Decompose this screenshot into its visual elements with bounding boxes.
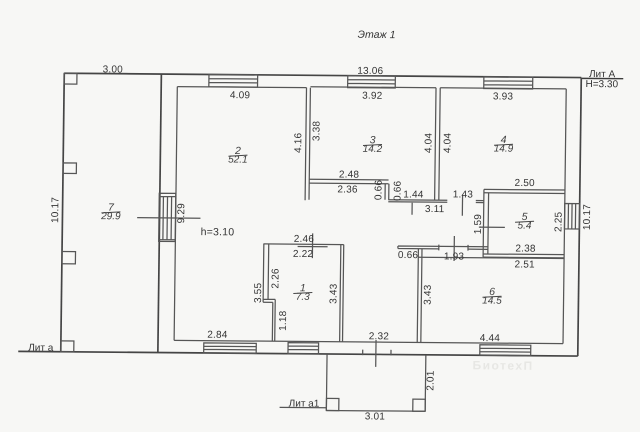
svg-text:3.01: 3.01 bbox=[365, 411, 386, 422]
dim line 9.29 bbox=[137, 217, 200, 220]
wall 2.48 bbox=[309, 179, 388, 183]
window bottom W7 bbox=[288, 343, 319, 354]
porch left wall bbox=[325, 354, 328, 410]
svg-text:2.84: 2.84 bbox=[207, 330, 228, 341]
interior line bottom bbox=[174, 340, 563, 343]
room label 2 bbox=[228, 145, 248, 166]
svg-text:3.55: 3.55 bbox=[253, 282, 264, 303]
porch bottom wall bbox=[326, 409, 425, 412]
window top W3 bbox=[348, 76, 396, 88]
svg-text:2.25: 2.25 bbox=[553, 211, 564, 232]
pilaster P4 bbox=[61, 341, 74, 352]
svg-text:Лит а: Лит а bbox=[28, 343, 54, 354]
pilaster P1 bbox=[64, 73, 77, 84]
room label 3 bbox=[363, 134, 383, 155]
wall rooms3-4 bbox=[435, 88, 441, 200]
porch corner box right bbox=[413, 399, 426, 411]
wall bottom outer bbox=[18, 351, 578, 356]
svg-text:2.50: 2.50 bbox=[515, 178, 536, 189]
underline Lit a1 bbox=[280, 406, 327, 408]
tick room1 top bbox=[311, 233, 313, 258]
svg-text:10.17: 10.17 bbox=[50, 197, 61, 223]
window top W4 bbox=[484, 77, 533, 89]
svg-text:0.66: 0.66 bbox=[392, 180, 403, 201]
pilaster P2 bbox=[63, 163, 76, 174]
svg-text:2.26: 2.26 bbox=[270, 268, 281, 289]
room1 top wall bbox=[263, 244, 343, 247]
wall left outer bbox=[61, 73, 65, 352]
wall corridor vertical bbox=[417, 249, 422, 343]
tick 1.44 bbox=[411, 203, 413, 215]
tick w193a bbox=[438, 245, 440, 251]
svg-text:7.3: 7.3 bbox=[296, 292, 310, 303]
tick w193b bbox=[467, 245, 469, 251]
dim line 1.59 bbox=[479, 226, 505, 228]
wall rooms2-3 bbox=[305, 88, 310, 201]
window divider WD bbox=[159, 193, 176, 241]
svg-text:9.29: 9.29 bbox=[176, 203, 187, 224]
room1 left wall lower bbox=[272, 299, 275, 341]
interior top room4 bbox=[440, 88, 566, 89]
svg-text:0.66: 0.66 bbox=[373, 180, 384, 201]
svg-text:4.04: 4.04 bbox=[442, 133, 453, 154]
svg-text:52.1: 52.1 bbox=[228, 155, 248, 166]
room label 1 bbox=[293, 282, 312, 303]
wall room5 top bbox=[484, 189, 565, 193]
svg-text:4.09: 4.09 bbox=[230, 90, 251, 101]
tick 1.43 bbox=[461, 195, 463, 216]
svg-text:4.16: 4.16 bbox=[293, 132, 304, 153]
porch corner box left bbox=[326, 398, 339, 410]
svg-text:3.11: 3.11 bbox=[425, 204, 445, 215]
interior line left bbox=[174, 87, 177, 341]
svg-text:4.04: 4.04 bbox=[423, 133, 434, 154]
window bottom W6 bbox=[204, 343, 257, 353]
svg-text:14.9: 14.9 bbox=[494, 144, 514, 155]
svg-text:Этаж 1: Этаж 1 bbox=[358, 29, 396, 41]
porch right wall bbox=[424, 355, 427, 411]
svg-text:1.43: 1.43 bbox=[453, 189, 474, 200]
wall right outer bbox=[578, 78, 582, 357]
svg-text:3.43: 3.43 bbox=[328, 283, 339, 304]
svg-text:29.9: 29.9 bbox=[100, 211, 121, 222]
pilaster P3 bbox=[62, 252, 76, 264]
window top W2 bbox=[209, 74, 258, 87]
svg-text:1.18: 1.18 bbox=[278, 310, 289, 331]
svg-text:Н=3.30: Н=3.30 bbox=[585, 79, 618, 90]
room label 6 bbox=[482, 286, 502, 307]
svg-text:2.36: 2.36 bbox=[337, 184, 358, 195]
svg-text:3.92: 3.92 bbox=[362, 91, 383, 102]
svg-text:14.2: 14.2 bbox=[363, 144, 383, 155]
room1 right wall bbox=[340, 245, 344, 342]
label line LitA bbox=[581, 77, 623, 79]
svg-text:13.06: 13.06 bbox=[357, 66, 383, 77]
svg-text:2.38: 2.38 bbox=[515, 243, 536, 254]
svg-text:3.00: 3.00 bbox=[103, 64, 124, 75]
window bottom W8 bbox=[480, 345, 531, 356]
tick 2.32 door bbox=[375, 340, 377, 367]
svg-text:1.59: 1.59 bbox=[473, 214, 484, 235]
room1 jog bbox=[263, 299, 275, 302]
svg-text:5.4: 5.4 bbox=[517, 221, 531, 232]
tick bottom a bbox=[362, 350, 364, 356]
wall divider bbox=[158, 74, 162, 353]
svg-text:h=3.10: h=3.10 bbox=[201, 226, 235, 238]
interior line right bbox=[563, 89, 566, 344]
svg-text:2.32: 2.32 bbox=[369, 331, 390, 342]
svg-text:БиотехП: БиотехП bbox=[472, 358, 533, 373]
wall room5 left bbox=[483, 189, 489, 257]
svg-text:3.38: 3.38 bbox=[311, 121, 322, 142]
svg-text:14.5: 14.5 bbox=[482, 296, 502, 307]
tick bottom b bbox=[390, 350, 392, 356]
room label 5 bbox=[515, 211, 534, 232]
svg-text:0.66: 0.66 bbox=[398, 250, 419, 261]
wall corridor top bbox=[388, 200, 484, 203]
wall 0.66-1.93 bbox=[398, 246, 488, 249]
tick 1.93 door bbox=[453, 236, 455, 261]
svg-text:2.01: 2.01 bbox=[425, 370, 436, 391]
svg-text:2.48: 2.48 bbox=[339, 169, 360, 180]
svg-text:1.93: 1.93 bbox=[444, 251, 465, 262]
interior top room2 bbox=[177, 87, 306, 88]
window right W5 bbox=[564, 204, 579, 229]
room1 left wall upper bbox=[263, 244, 269, 302]
room6 top line bbox=[418, 257, 564, 258]
interior top room3 bbox=[310, 87, 436, 88]
wall top outer bbox=[64, 73, 581, 77]
svg-text:4.44: 4.44 bbox=[480, 333, 501, 344]
svg-text:2.51: 2.51 bbox=[515, 259, 536, 270]
svg-text:3.93: 3.93 bbox=[493, 91, 514, 102]
svg-text:3.43: 3.43 bbox=[423, 284, 434, 305]
room label 7 bbox=[100, 202, 121, 223]
wall room5 bottom bbox=[483, 254, 564, 258]
wall jog bbox=[385, 184, 389, 200]
svg-text:1.44: 1.44 bbox=[403, 189, 424, 200]
svg-text:2.22: 2.22 bbox=[293, 249, 314, 260]
svg-text:2.46: 2.46 bbox=[294, 234, 315, 245]
room label 4 bbox=[494, 134, 514, 155]
svg-text:10.17: 10.17 bbox=[582, 204, 593, 230]
